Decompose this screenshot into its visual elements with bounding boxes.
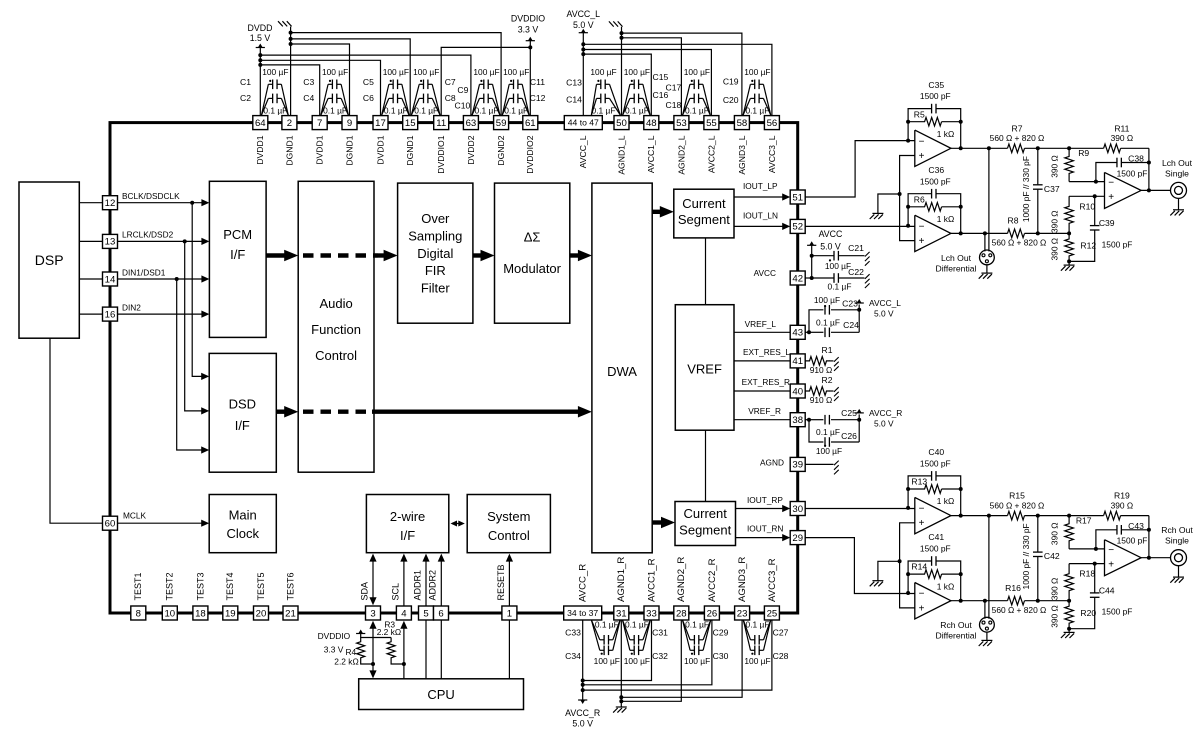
svg-text:390 Ω: 390 Ω [1049, 523, 1059, 546]
svg-text:ADDR2: ADDR2 [428, 570, 438, 601]
node R lower feedback junctions [906, 591, 910, 595]
CPU block [359, 679, 524, 710]
ground R ladder [1068, 629, 1070, 633]
svg-text:ΔΣ: ΔΣ [524, 229, 541, 244]
wire AVCC_R rail to pin 26 [583, 620, 712, 685]
svg-text:1000 pF // 330 pF: 1000 pF // 330 pF [1021, 523, 1031, 589]
wire R4 to SDA [361, 662, 373, 664]
svg-text:AVCC1_R: AVCC1_R [646, 558, 657, 602]
wire AGND_R rail to pin 28 [621, 620, 681, 701]
pin 6 ADDR2 [434, 606, 449, 620]
node R differential tap lower [983, 599, 987, 603]
svg-text:390 Ω: 390 Ω [1049, 605, 1059, 628]
svg-text:C33: C33 [565, 628, 581, 638]
capacitor C5 100 uF [392, 80, 394, 90]
capacitor C23 100 uF upper branch [809, 310, 823, 333]
svg-text:15: 15 [405, 118, 416, 129]
wire DGND rail to pin 15 [291, 39, 411, 116]
svg-text:8: 8 [136, 608, 141, 619]
svg-text:AVCC_L: AVCC_L [869, 298, 901, 308]
svg-text:9: 9 [347, 118, 352, 129]
svg-text:+: + [919, 603, 925, 614]
svg-text:1500 pF: 1500 pF [920, 544, 951, 554]
block Over Sampling Digital FIR Filter [398, 183, 473, 323]
svg-text:R13: R13 [911, 477, 927, 487]
svg-text:4: 4 [401, 608, 407, 619]
svg-text:Control: Control [315, 348, 357, 363]
svg-text:−: − [919, 589, 925, 600]
svg-text:DVDD1: DVDD1 [315, 135, 325, 164]
svg-text:DVDDIO: DVDDIO [511, 14, 545, 24]
capacitor C20 0.1 uF [754, 94, 756, 104]
svg-text:R16: R16 [1005, 583, 1021, 593]
svg-text:14: 14 [105, 274, 116, 285]
ground R Out Single [1178, 566, 1180, 577]
capacitor C12 0.1 uF [513, 94, 515, 104]
node L differential tap lower [983, 231, 987, 235]
svg-text:+: + [919, 236, 925, 247]
svg-text:29: 29 [792, 533, 803, 544]
capacitor C33 0.1 uF [603, 635, 605, 645]
svg-text:IOUT_LN: IOUT_LN [743, 211, 778, 221]
svg-text:390 Ω: 390 Ω [1049, 210, 1059, 233]
svg-text:VREF_L: VREF_L [745, 319, 777, 329]
svg-text:Single: Single [1165, 536, 1189, 546]
svg-text:39: 39 [792, 460, 803, 471]
svg-text:C30: C30 [713, 651, 729, 661]
wire ADDR2 CPU to 2-wire I/F [440, 556, 442, 679]
svg-text:43: 43 [792, 328, 803, 339]
svg-text:AVCC3_L: AVCC3_L [767, 135, 777, 173]
capacitor C27 0.1 uF [754, 635, 756, 645]
pin 43 VREF_L [790, 325, 805, 339]
wire DGND rail to pin 59 [291, 33, 502, 116]
feedback loop L upper: resistor R5 1 kOhm and capacitor C35 1500 pF [908, 109, 932, 141]
capacitor C16 0.1 uF [633, 94, 635, 104]
block Audio Function Control [298, 181, 374, 472]
capacitor C30 100 uF [693, 646, 695, 656]
svg-text:33: 33 [646, 608, 657, 619]
wire DVDDIO stem to pin 61 [529, 41, 531, 116]
svg-text:56: 56 [767, 118, 778, 129]
capacitor C19 100 uF [754, 80, 756, 90]
svg-text:44 to 47: 44 to 47 [568, 118, 599, 128]
svg-text:Main: Main [229, 507, 257, 522]
svg-text:3: 3 [370, 608, 375, 619]
svg-text:48: 48 [646, 118, 657, 129]
wire pin 43 node [805, 331, 809, 333]
capacitor C3 100 uF [331, 80, 333, 90]
wire VREF to Current Segment R [705, 430, 707, 501]
node R ladder bottom [1067, 627, 1071, 631]
supply AVCC_R terminal at C25 [858, 414, 860, 419]
signal path dashed through Audio Function Control (DSD chain) [303, 410, 372, 414]
svg-text:TEST6: TEST6 [285, 572, 295, 600]
svg-text:TEST4: TEST4 [225, 572, 235, 600]
wire VREF box to pin 43 VREF_L [734, 331, 790, 333]
wire L upper output [951, 147, 1008, 149]
wire R output to jack [1141, 557, 1170, 559]
svg-text:100 µF: 100 µF [816, 446, 842, 456]
node L differential tap upper [987, 146, 991, 150]
capacitor C6 0.1 uF [392, 94, 394, 104]
node DVDD rail junctions [258, 53, 262, 57]
svg-text:I/F: I/F [400, 528, 415, 543]
svg-text:19: 19 [225, 608, 236, 619]
wire AVCC_R rail to pin 33 [583, 620, 652, 681]
pin 15 DGND1 [403, 116, 418, 130]
wire pin 38 node [805, 419, 809, 421]
ground L ladder [1068, 261, 1070, 265]
block VREF [675, 305, 734, 431]
ground R differential connector [986, 632, 988, 640]
block PCM I/F [209, 181, 266, 337]
svg-text:IOUT_RN: IOUT_RN [747, 524, 783, 534]
feedback loop R upper: resistor R13 1 kOhm and capacitor C40 1500 pF [908, 476, 932, 508]
svg-text:100 µF: 100 µF [590, 67, 616, 77]
svg-text:C40: C40 [928, 447, 944, 457]
svg-text:13: 13 [105, 237, 116, 248]
svg-text:R5: R5 [914, 109, 925, 119]
wire AVCC_L rail to pin 56 [583, 44, 772, 115]
wire DSP to pin 13 LRCLK/DSD2 [79, 240, 102, 242]
wire L + input node [1069, 195, 1104, 197]
svg-text:DVDD1: DVDD1 [255, 135, 265, 164]
svg-text:40: 40 [792, 386, 803, 397]
svg-text:1500 pF: 1500 pF [920, 458, 951, 468]
IC outline (64-pin DAC) [110, 123, 798, 613]
pin 5 ADDR1 [419, 606, 434, 620]
connector R Out Differential [980, 617, 995, 632]
svg-text:1 kΩ: 1 kΩ [937, 214, 954, 224]
wire DSP to pin 12 BCLK/DSDCLK [79, 202, 102, 204]
wire DVDD rail to pin 63 [260, 55, 471, 116]
wire AGND_L stem to pin 50 [621, 27, 623, 116]
svg-text:EXT_RES_R: EXT_RES_R [742, 377, 790, 387]
svg-text:18: 18 [195, 608, 206, 619]
svg-text:100 µF: 100 µF [503, 67, 529, 77]
svg-text:Rch Out: Rch Out [1161, 525, 1193, 535]
svg-text:1500 pF: 1500 pF [1117, 168, 1148, 178]
svg-text:C20: C20 [723, 95, 739, 105]
svg-text:BCLK/DSDCLK: BCLK/DSDCLK [122, 191, 180, 201]
svg-text:C35: C35 [928, 80, 944, 90]
pin 58 AGND3_L [734, 116, 749, 130]
connector L Out Differential [980, 250, 995, 265]
wire SCL pin 4 to CPU [403, 623, 405, 679]
svg-text:IOUT_RP: IOUT_RP [747, 495, 783, 505]
resistor R16 560+820 Ohm (lower) [1008, 596, 1025, 605]
wire pin 39 to ground [805, 463, 833, 465]
svg-text:LRCLK/DSD2: LRCLK/DSD2 [122, 230, 174, 240]
svg-text:C12: C12 [530, 93, 546, 103]
svg-text:Rch Out: Rch Out [940, 620, 972, 630]
block Main Clock [209, 495, 276, 553]
svg-text:AGND1_L: AGND1_L [616, 135, 626, 174]
ground L Out Single [1178, 198, 1180, 209]
resistor R4 2.2 kOhm [357, 638, 365, 663]
wire R op-amp + inputs common [900, 523, 915, 608]
node AVCC_L junction [857, 308, 861, 312]
svg-text:910 Ω: 910 Ω [810, 395, 833, 405]
resistor R18 390 Ohm (+ to lower wire) [1065, 564, 1074, 601]
wire AGND_L rail to pin 58 [622, 33, 742, 116]
svg-text:C15: C15 [653, 72, 669, 82]
op-amp L3 output stage [1105, 172, 1142, 208]
svg-text:CPU: CPU [427, 687, 454, 702]
supply DVDD terminal [256, 47, 265, 49]
svg-text:C22: C22 [848, 267, 864, 277]
block DWA [592, 183, 652, 553]
node AVCC junction C22 [810, 276, 814, 280]
svg-text:R17: R17 [1076, 515, 1092, 525]
pin 26 AVCC2_R [704, 606, 719, 620]
svg-text:42: 42 [792, 273, 803, 284]
svg-text:DVDD2: DVDD2 [466, 135, 476, 164]
svg-text:C42: C42 [1044, 551, 1060, 561]
node AVCC_R rail junctions [581, 679, 585, 683]
svg-text:5.0 V: 5.0 V [572, 718, 593, 728]
svg-text:100 µF: 100 µF [684, 656, 710, 666]
svg-text:560 Ω + 820 Ω: 560 Ω + 820 Ω [990, 133, 1045, 143]
svg-text:100 µF: 100 µF [744, 656, 770, 666]
svg-text:58: 58 [737, 118, 748, 129]
feedback loop L lower: resistor R6 1 kOhm and capacitor C36 1500 pF [908, 194, 932, 226]
svg-text:0.1 µF: 0.1 µF [384, 105, 408, 115]
pin 10 TEST2 [162, 606, 177, 620]
svg-text:System: System [487, 509, 530, 524]
wire pin 30 to Rch op-amp 1 [805, 508, 915, 510]
pin 17 DVDD1 [373, 116, 388, 130]
signal path dashed through Audio Function Control (PCM chain) [303, 253, 378, 257]
svg-text:0.1 µF: 0.1 µF [595, 619, 619, 629]
resistor R12 390 Ohm (lower wire to gnd) [1065, 233, 1074, 261]
pin 50 AGND1_L [614, 116, 629, 130]
svg-text:5.0 V: 5.0 V [820, 241, 841, 251]
svg-text:C19: C19 [723, 77, 739, 87]
pin 39 AGND [790, 457, 805, 471]
wire pin 42 AVCC node [805, 277, 812, 279]
pin 64 DVDD1 [253, 116, 268, 130]
svg-text:DGND1: DGND1 [344, 135, 354, 165]
wire AGND_R rail to pin 23 [621, 620, 742, 697]
svg-text:AGND: AGND [760, 458, 784, 468]
svg-text:Filter: Filter [421, 281, 451, 296]
capacitor C4 0.1 uF [331, 94, 333, 104]
node L upper feedback junctions [906, 139, 910, 143]
svg-text:C32: C32 [652, 651, 668, 661]
pin 3 SDA [366, 606, 381, 620]
svg-text:I/F: I/F [235, 418, 250, 433]
svg-text:0.1 µF: 0.1 µF [625, 105, 649, 115]
svg-text:AGND2_R: AGND2_R [676, 557, 687, 602]
wire DVDD rail to pin 17 [260, 60, 380, 115]
pin 63 DVDD2 [463, 116, 478, 130]
capacitor C25 0.1 uF upper branch [809, 419, 823, 421]
svg-text:1500 pF: 1500 pF [1102, 607, 1133, 617]
svg-text:AVCC: AVCC [754, 268, 776, 278]
wire Current Segment L to pin 52 IOUT_LN [734, 225, 784, 227]
svg-text:C7: C7 [445, 77, 456, 87]
svg-text:DGND1: DGND1 [284, 135, 294, 165]
wire pin 16 to PCM I/F [118, 313, 204, 315]
node AGND_L rail junctions [620, 31, 624, 35]
svg-text:1 kΩ: 1 kΩ [937, 581, 954, 591]
capacitor C39 1500 pF (+ to gnd) [1094, 196, 1096, 225]
svg-text:100 µF: 100 µF [594, 656, 620, 666]
wire VREF box to pin 40 EXT_RES_R [734, 390, 790, 392]
wire L lower output [951, 232, 1008, 234]
capacitor C8 0.1 uF [423, 94, 425, 104]
svg-text:C21: C21 [848, 243, 864, 253]
wire pin 13 to PCM I/F [118, 240, 204, 242]
resistor R20 390 Ohm (lower wire to gnd) [1065, 601, 1074, 629]
wire Current Segment L to VREF [705, 238, 707, 305]
svg-text:560 Ω + 820 Ω: 560 Ω + 820 Ω [992, 238, 1047, 248]
svg-text:60: 60 [105, 518, 116, 529]
svg-text:63: 63 [466, 118, 477, 129]
svg-text:100 µF: 100 µF [473, 67, 499, 77]
svg-text:7: 7 [317, 118, 322, 129]
svg-text:26: 26 [707, 608, 718, 619]
op-amp R3 output stage [1105, 540, 1142, 576]
pin 14 DIN1/DSD1 [103, 272, 118, 286]
svg-text:100 µF: 100 µF [262, 67, 288, 77]
svg-text:+: + [919, 518, 925, 529]
node L lower feedback junctions [906, 224, 910, 228]
wire AVCC_L rail to pin 55 [583, 50, 711, 116]
svg-text:0.1 µF: 0.1 µF [816, 317, 840, 327]
svg-text:EXT_RES_L: EXT_RES_L [743, 347, 790, 357]
wire pin 52 to Lch op-amp 2 [805, 225, 915, 227]
svg-text:R20: R20 [1080, 608, 1096, 618]
capacitor C21 100 uF [812, 255, 835, 257]
svg-text:C37: C37 [1044, 184, 1060, 194]
feedback loop R lower: resistor R14 1 kOhm and capacitor C41 1500 pF [908, 561, 932, 593]
svg-text:−: − [919, 136, 925, 147]
svg-text:31: 31 [616, 608, 627, 619]
signal path solid DSD chain to DWA (thick arrow) [372, 410, 580, 414]
svg-text:2.2 kΩ: 2.2 kΩ [377, 627, 401, 637]
svg-text:50: 50 [616, 118, 627, 129]
node DVDDIO rail junction [528, 45, 532, 49]
wire R lower output [951, 600, 1008, 602]
svg-text:1000 pF // 330 pF: 1000 pF // 330 pF [1021, 156, 1031, 222]
wire AVCC stem [811, 245, 813, 278]
svg-text:TEST2: TEST2 [165, 572, 175, 600]
pin 59 DGND2 [494, 116, 509, 130]
pin 28 AGND2_R [674, 606, 689, 620]
svg-text:Clock: Clock [226, 526, 259, 541]
svg-text:1.5 V: 1.5 V [250, 33, 271, 43]
node junction BCLK [190, 201, 194, 205]
pin 2 DGND1 [282, 116, 297, 130]
pin 21 TEST6 [283, 606, 298, 620]
svg-text:Segment: Segment [678, 212, 730, 227]
svg-text:Sampling: Sampling [408, 228, 462, 243]
svg-text:R9: R9 [1078, 148, 1089, 158]
svg-text:R7: R7 [1012, 123, 1023, 133]
node AVCC junction C21 [810, 254, 814, 258]
svg-text:AVCC_L: AVCC_L [567, 9, 601, 19]
svg-text:R12: R12 [1080, 241, 1096, 251]
svg-text:560 Ω + 820 Ω: 560 Ω + 820 Ω [990, 500, 1045, 510]
svg-text:R2: R2 [822, 375, 833, 385]
capacitor C1 100 uF [272, 80, 274, 90]
supply AVCC_L terminal [579, 32, 588, 34]
node R upper feedback junctions [906, 506, 910, 510]
svg-text:Current: Current [684, 506, 728, 521]
svg-text:C39: C39 [1099, 218, 1115, 228]
capacitor C11 100 uF [513, 80, 515, 90]
svg-text:0.1 µF: 0.1 µF [323, 105, 347, 115]
svg-text:28: 28 [676, 608, 687, 619]
capacitor C38 1500 pF feedback [1096, 163, 1117, 182]
capacitor C37 1000pF//330pF [1037, 148, 1039, 184]
wire AVCC_L stem to pins 44-47 [582, 33, 584, 116]
svg-text:3.3 V: 3.3 V [324, 644, 344, 654]
svg-text:1500 pF: 1500 pF [920, 91, 951, 101]
wire pin 51 to Lch op-amp 1 [805, 141, 915, 197]
resistor R11 390 Ohm (output feedback) [1069, 147, 1104, 149]
svg-text:DVDD1: DVDD1 [375, 135, 385, 164]
signal path Delta-Sigma to DWA (thick arrow) [570, 253, 581, 257]
wire DSP to pin 14 DIN1/DSD1 [79, 278, 102, 280]
svg-text:C1: C1 [240, 77, 251, 87]
capacitor C42 1000pF//330pF [1037, 516, 1039, 552]
wire DIN1 branch to DSD I/F [177, 279, 203, 450]
svg-text:30: 30 [792, 504, 803, 515]
svg-text:Differential: Differential [936, 631, 977, 641]
op-amp I/V L2 (lower) [915, 215, 951, 251]
pin 33 AVCC1_R [644, 606, 659, 620]
supply DVDDIO terminal [526, 40, 535, 42]
capacitor C7 100 uF [423, 80, 425, 90]
pin 29 IOUT_RN [790, 531, 805, 545]
svg-text:21: 21 [285, 608, 296, 619]
svg-text:1500 pF: 1500 pF [920, 176, 951, 186]
wire R differential connector stubs [984, 601, 986, 619]
capacitor C10 0.1 uF [483, 94, 485, 104]
pin 41 EXT_RES_L [790, 354, 805, 368]
pin 31 AGND1_R [614, 606, 629, 620]
capacitor C26 100 uF lower branch [809, 420, 823, 442]
node R R-ladder junctions [1067, 514, 1071, 518]
svg-text:DIN2: DIN2 [122, 302, 141, 312]
svg-text:11: 11 [436, 118, 446, 129]
signal path FIR to Delta-Sigma (thick arrow) [473, 253, 484, 257]
resistor R15 560+820 Ohm (upper) [1008, 511, 1025, 520]
svg-text:41: 41 [792, 356, 803, 367]
capacitor C14 0.1 uF [600, 94, 602, 104]
supply AVCC_R terminal (down) [578, 699, 587, 701]
ground AGND_L top symbol [609, 21, 614, 26]
svg-text:DGND1: DGND1 [405, 135, 415, 165]
wire R + input node [1069, 563, 1104, 565]
svg-text:R8: R8 [1008, 216, 1019, 226]
svg-text:DWA: DWA [607, 364, 637, 379]
pin 42 AVCC [790, 271, 805, 285]
svg-text:1500 pF: 1500 pF [1117, 536, 1148, 546]
svg-text:0.1 µF: 0.1 µF [414, 105, 438, 115]
svg-text:C14: C14 [566, 95, 582, 105]
svg-text:Lch Out: Lch Out [1162, 158, 1193, 168]
wire DVDD stem [259, 48, 261, 116]
pin 4 SCL [396, 606, 411, 620]
svg-text:TEST5: TEST5 [256, 572, 266, 600]
ground AGND_R symbol [616, 706, 627, 708]
svg-text:Differential: Differential [936, 263, 977, 273]
